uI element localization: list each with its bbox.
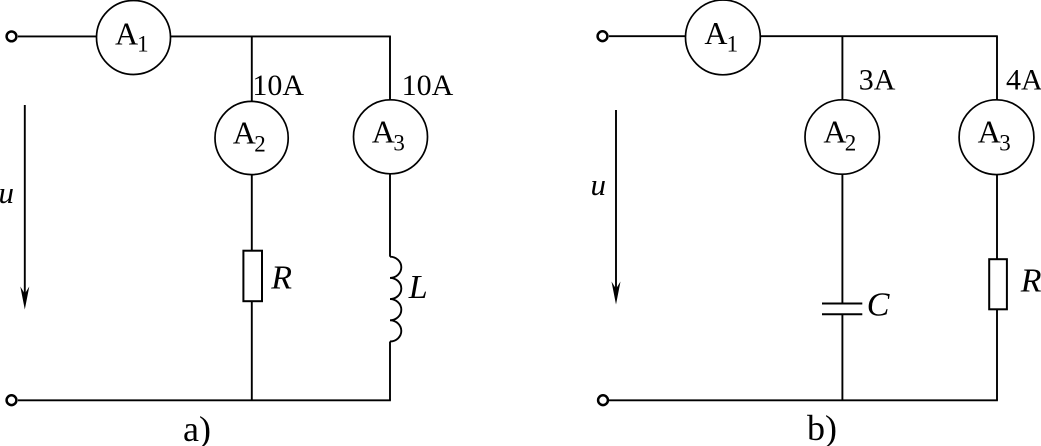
svg-text:A: A — [823, 114, 846, 150]
terminal (a) bottom-left — [7, 395, 17, 405]
voltage arrow u (a) — [20, 105, 29, 310]
label 3A on branch A2 (b) — [859, 64, 896, 97]
voltage arrow u (b) — [612, 110, 621, 305]
wire (a) top-left horizontal — [18, 35, 97, 37]
ammeter A1 (a) — [97, 1, 171, 75]
wire (a) branch A3 drop from top — [389, 36, 391, 99]
ammeter A2 (a) — [215, 101, 288, 174]
wire (b) resistor to bottom — [996, 309, 998, 400]
ammeter A3 (b) — [959, 100, 1034, 175]
svg-text:R: R — [1020, 263, 1041, 300]
label b) — [807, 408, 837, 446]
label u (a) — [0, 175, 14, 210]
label 4A on branch A3 (b) — [1006, 64, 1041, 97]
svg-text:4A: 4A — [1006, 64, 1041, 97]
svg-text:A: A — [115, 15, 138, 51]
ammeter A3 (a) — [354, 100, 428, 174]
svg-text:10A: 10A — [402, 69, 454, 102]
terminal (b) top-left — [598, 31, 608, 41]
ammeter A1 (b) — [686, 0, 761, 75]
capacitor C — [822, 304, 862, 315]
svg-text:A: A — [978, 114, 1001, 150]
svg-text:10A: 10A — [252, 69, 304, 102]
wire (b) branch A3 drop from top — [996, 36, 998, 100]
terminal (a) top-left — [7, 32, 17, 42]
svg-text:C: C — [867, 286, 890, 323]
resistor R (a) — [243, 251, 262, 302]
svg-text:1: 1 — [137, 32, 149, 57]
label u (b) — [591, 167, 607, 202]
label R (a) — [270, 260, 292, 297]
svg-text:u: u — [0, 175, 14, 210]
svg-text:3A: 3A — [859, 64, 896, 97]
wire (a) top horizontal A1 to right corner — [171, 35, 391, 37]
svg-text:u: u — [591, 167, 607, 202]
svg-text:1: 1 — [727, 32, 739, 57]
wire (b) capacitor to bottom — [841, 314, 843, 400]
svg-text:L: L — [408, 269, 428, 306]
wire (a) branch A2 drop from top — [251, 36, 253, 101]
svg-text:A: A — [704, 15, 727, 51]
svg-text:2: 2 — [254, 132, 266, 157]
wire (a) inductor to bottom — [389, 342, 391, 401]
wire (b) A3 to resistor R — [996, 175, 998, 260]
resistor R (b) — [989, 259, 1007, 309]
terminal (b) bottom-left — [598, 395, 608, 405]
wire (a) A3 to inductor — [389, 174, 391, 257]
label R (b) — [1020, 263, 1041, 300]
wire (b) bottom horizontal — [609, 399, 998, 401]
wire (b) A2 to capacitor — [841, 174, 843, 303]
label C — [867, 286, 890, 323]
ammeter A2 (b) — [805, 100, 879, 174]
svg-text:2: 2 — [845, 131, 857, 156]
wire (b) top-left horizontal — [609, 35, 686, 37]
wire (b) top horizontal A1 to right corner — [760, 35, 998, 37]
label 10A on branch A3 (a) — [402, 69, 454, 102]
wire (a) bottom horizontal — [18, 399, 391, 401]
svg-text:A: A — [233, 115, 256, 151]
label L — [408, 269, 428, 306]
inductor L — [390, 257, 401, 342]
label 10A on branch A2 (a) — [252, 69, 304, 102]
svg-text:A: A — [372, 113, 395, 149]
svg-text:b): b) — [807, 408, 837, 446]
wire (a) A2 to resistor R — [251, 175, 253, 251]
label a) — [183, 409, 211, 446]
wire (b) branch A2 drop from top — [841, 36, 843, 100]
svg-text:a): a) — [183, 409, 211, 446]
svg-text:3: 3 — [999, 131, 1011, 156]
svg-text:3: 3 — [393, 131, 405, 156]
wire (a) resistor to bottom — [251, 301, 253, 400]
svg-text:R: R — [270, 260, 292, 297]
